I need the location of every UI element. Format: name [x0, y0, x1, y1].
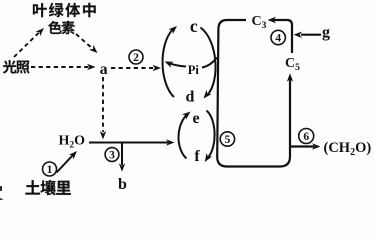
svg-text:2: 2	[133, 52, 139, 64]
svg-text:d: d	[186, 89, 195, 106]
svg-text:Pi: Pi	[188, 63, 200, 77]
svg-text:b: b	[118, 176, 127, 193]
svg-text:4: 4	[275, 33, 281, 45]
svg-text:(CH2O): (CH2O)	[324, 140, 372, 158]
svg-text:e: e	[192, 110, 199, 127]
svg-text:1: 1	[47, 164, 53, 176]
svg-text:c: c	[190, 16, 198, 36]
svg-text:5: 5	[225, 134, 231, 146]
svg-text:f: f	[194, 148, 200, 165]
svg-text:3: 3	[109, 150, 115, 162]
svg-text:a: a	[100, 61, 108, 78]
svg-text:6: 6	[303, 131, 309, 143]
svg-text:g: g	[322, 24, 330, 41]
